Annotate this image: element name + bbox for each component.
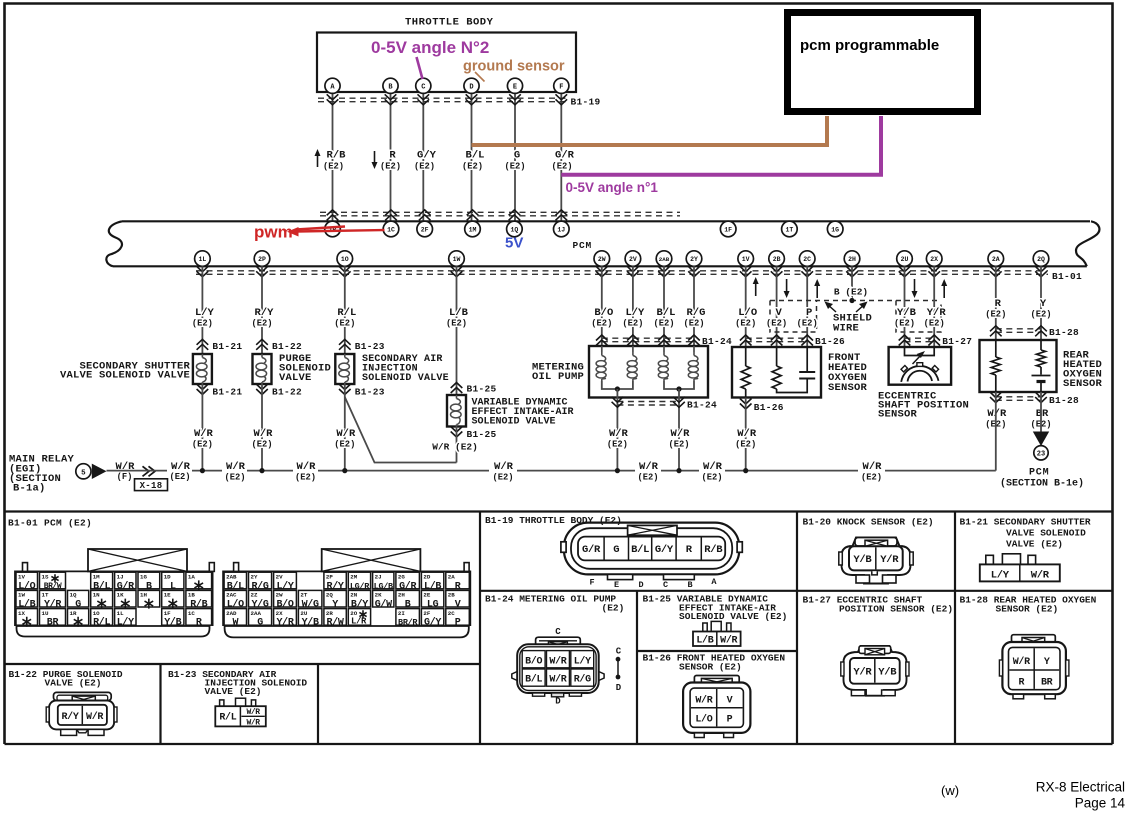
svg-text:P: P — [806, 307, 812, 319]
connector B1-22 top bar — [54, 692, 112, 700]
svg-text:Y/R: Y/R — [927, 307, 947, 319]
svg-text:1W: 1W — [453, 256, 461, 263]
connector B1-19 outer shell — [564, 523, 739, 575]
solenoid coil winding on wire 1O — [344, 354, 346, 358]
PCM pin 2A — [988, 251, 1004, 267]
svg-text:W/R: W/R — [254, 428, 274, 440]
terminal cell 2W = B/O — [274, 590, 297, 607]
svg-text:2U: 2U — [901, 256, 909, 263]
svg-text:1T: 1T — [42, 592, 49, 599]
svg-text:R/Y: R/Y — [255, 307, 275, 319]
svg-text:L/Y: L/Y — [117, 617, 134, 629]
solenoid valve coil box on wire 1L — [193, 354, 212, 384]
svg-text:2H: 2H — [848, 256, 856, 263]
svg-text:1L: 1L — [198, 256, 206, 263]
connector B1-22 ear right — [114, 707, 117, 722]
svg-text:W/R: W/R — [297, 461, 317, 473]
svg-text:2H: 2H — [398, 592, 405, 599]
svg-text:(E2): (E2) — [894, 319, 915, 329]
connector B1-24 dashed line above pump — [602, 337, 694, 339]
throttle body pin E — [507, 78, 522, 93]
up arrow on wire 2X — [943, 283, 945, 298]
table grid vertical x480 — [479, 512, 481, 745]
connector B1-22 crosshatch — [72, 696, 95, 703]
wire from pin 2C down to front heated oxygen sensor — [806, 266, 808, 347]
wire C from throttle pin C to PCM pin 2F — [422, 93, 424, 221]
table grid line between B1-25 and B1-26 — [637, 650, 797, 652]
connector B1-25 tab right — [727, 623, 731, 632]
svg-text:1J: 1J — [117, 573, 124, 580]
connector B1-25 chevron above valve — [451, 383, 463, 389]
table grid line below B1-19 row — [480, 590, 1113, 592]
eccentric sensor rotor tooth top — [917, 363, 923, 367]
red annotation arrowhead — [287, 227, 299, 237]
svg-text:B/O: B/O — [525, 655, 542, 667]
svg-text:(w): (w) — [941, 783, 959, 798]
svg-text:23: 23 — [1037, 451, 1045, 459]
svg-text:2U: 2U — [300, 610, 307, 617]
svg-text:R/G: R/G — [687, 307, 706, 319]
PCM pin 1Q — [507, 221, 523, 237]
svg-text:B1-19: B1-19 — [571, 97, 601, 108]
connector B1-26 bottom tab right — [724, 733, 734, 738]
terminal cell 1F = Y/B — [162, 609, 184, 626]
terminal cell 1U = BR — [40, 609, 66, 626]
svg-text:B (E2): B (E2) — [834, 287, 868, 298]
connector B1-01 left top tab right — [209, 563, 214, 572]
svg-text:2C: 2C — [803, 256, 811, 263]
connector B1-19 dashed line — [318, 97, 566, 99]
terminal cell pump B/L r2c1 — [522, 669, 545, 686]
shield dashed box around V and P wires — [770, 301, 817, 333]
svg-text:VALVE (E2): VALVE (E2) — [205, 686, 262, 697]
connector B1-26 bottom tab left — [694, 733, 704, 738]
wire F from throttle pin F to PCM pin 1J — [560, 93, 562, 221]
connector B1-21 tab right — [1028, 555, 1036, 564]
svg-text:B/L: B/L — [631, 544, 649, 556]
svg-text:(E2): (E2) — [607, 440, 628, 450]
svg-text:2X: 2X — [276, 610, 283, 617]
connector B1-01 chevron below pin 1O — [339, 266, 351, 272]
connector B1-28 ear right — [1066, 660, 1069, 676]
terminal cell 2I = BR/R — [396, 609, 420, 626]
throttle body pin B — [383, 78, 398, 93]
svg-text:B1-23: B1-23 — [355, 341, 385, 352]
svg-text:SOLENOID VALVE (E2): SOLENOID VALVE (E2) — [679, 611, 787, 622]
svg-text:B1-24: B1-24 — [687, 400, 717, 411]
connector B1-01 chevron below pin 2H — [846, 266, 858, 272]
svg-text:2T: 2T — [300, 592, 307, 599]
wire from pin 1L down to solenoid valve — [201, 266, 203, 354]
terminal cell 2A = R — [446, 572, 470, 589]
connector B1-27 outer housing — [844, 646, 907, 696]
wire from pin 1O down to solenoid valve — [344, 266, 346, 354]
svg-text:W/R (E2): W/R (E2) — [432, 442, 478, 453]
svg-text:W/R: W/R — [1013, 656, 1030, 668]
svg-text:R/L: R/L — [93, 617, 110, 629]
wire from pin 1W down to variable dynamic valve — [456, 266, 458, 395]
table grid line below B1-01 — [5, 663, 481, 665]
terminal cell 2V = L/Y — [274, 572, 297, 589]
wire from pin 2P down to solenoid valve — [261, 266, 263, 354]
terminal cell throttle R/B — [700, 538, 702, 560]
svg-text:0-5V angle n°1: 0-5V angle n°1 — [566, 180, 659, 195]
svg-text:B: B — [687, 580, 692, 590]
connector chevron above pin 2F — [419, 210, 431, 216]
svg-text:B1-21: B1-21 — [212, 341, 242, 352]
svg-text:2Y: 2Y — [690, 256, 698, 263]
connector B1-24 bottom tab right — [569, 693, 581, 696]
svg-text:2F: 2F — [423, 610, 430, 617]
variable dynamic valve coil winding — [456, 395, 458, 399]
svg-text:D: D — [555, 697, 561, 707]
connector B1-20 crosshatch — [865, 540, 888, 546]
connector B1-01 chevron below pin 2AB — [658, 266, 670, 272]
connector B1-01 right top tab right — [464, 563, 469, 572]
svg-text:R/L: R/L — [337, 307, 356, 319]
wire from pin 2V down to metering oil pump — [632, 266, 634, 346]
PCM bus top line — [122, 220, 1090, 222]
eccentric sensor rotor tooth left — [901, 366, 907, 372]
svg-text:C: C — [663, 580, 668, 590]
terminal cell 2K = G/W — [373, 590, 394, 607]
svg-text:POSITION SENSOR (E2): POSITION SENSOR (E2) — [839, 604, 953, 615]
connector chevron above pin 1C — [385, 210, 397, 216]
throttle body pin A — [325, 78, 340, 93]
ground wire from variable dynamic valve joining wire 1O — [345, 397, 457, 463]
terminal cell 1B = R/B — [186, 590, 212, 607]
shield wire dashed line — [770, 300, 941, 302]
connector B1-27 ear right — [906, 662, 909, 676]
terminal cell 1N = * — [91, 590, 113, 607]
solenoid coil winding on wire 1L — [201, 354, 203, 358]
connector B1-22 bottom tab right — [88, 729, 104, 735]
connector B1-23 terminal frame — [215, 706, 265, 726]
svg-text:RX-8 Electrical: RX-8 Electrical — [1036, 780, 1125, 795]
connector B1-27 chevron on wire 2X — [928, 335, 940, 341]
svg-text:(E2): (E2) — [295, 473, 316, 483]
svg-text:E: E — [513, 83, 517, 91]
svg-text:W/R: W/R — [549, 674, 566, 686]
PCM pin 1T — [782, 221, 798, 237]
connector B1-28 top tab — [1012, 635, 1056, 643]
wire from pin 2A to rear heated oxygen sensor — [995, 266, 997, 340]
connector B1-01 chevron below pin 2X — [928, 266, 940, 272]
svg-text:2AB: 2AB — [659, 256, 670, 263]
connector B1-21 terminal frame — [980, 564, 1060, 581]
terminal cell 1H = * — [138, 590, 160, 607]
svg-text:R/W: R/W — [327, 617, 344, 629]
wire between C and D points — [617, 659, 619, 677]
metering oil pump coil on wire 2V — [632, 346, 634, 352]
connector B1-01 left crosshatch — [88, 549, 187, 571]
svg-text:(E2): (E2) — [192, 319, 213, 329]
svg-text:G: G — [514, 150, 520, 162]
wire from pin 2Q to rear heated oxygen sensor — [1040, 266, 1042, 340]
svg-text:(E2): (E2) — [766, 319, 787, 329]
pump coil pair join wire right — [664, 381, 694, 389]
throttle body pin C — [416, 78, 431, 93]
connector B1-27 ear left — [841, 662, 844, 676]
connector B1-21 chevron above valve — [197, 339, 209, 345]
wire from pin 2AB down to metering oil pump — [663, 266, 665, 346]
ground wire from left pump pair to bus — [616, 389, 618, 471]
svg-text:C: C — [616, 647, 622, 657]
eccentric sensor arrow — [913, 355, 922, 365]
svg-text:P: P — [727, 715, 733, 726]
svg-text:V: V — [775, 307, 782, 319]
svg-text:W/R: W/R — [863, 461, 883, 473]
PCM pin 1M — [465, 221, 481, 237]
connector B1-23 tab right — [251, 700, 255, 706]
eccentric sensor toothed rotor outer arc — [901, 366, 938, 382]
svg-text:W/R: W/R — [336, 428, 356, 440]
svg-text:Y: Y — [1040, 298, 1047, 310]
connector B1-24 ear right — [599, 672, 604, 681]
svg-text:VALVE SOLENOID: VALVE SOLENOID — [1006, 528, 1086, 539]
svg-text:pcm programmable: pcm programmable — [800, 37, 939, 54]
svg-text:G/W: G/W — [375, 599, 392, 611]
terminal cell 2O = #L/R — [348, 609, 370, 626]
terminal cell throttle R — [675, 538, 677, 560]
connector chevron above pin 1J — [556, 210, 568, 216]
svg-text:0-5V angle N°2: 0-5V angle N°2 — [371, 38, 489, 57]
terminal cell pump B/O r1c1 — [522, 651, 545, 668]
svg-text:(E2): (E2) — [701, 473, 722, 483]
svg-text:2AB: 2AB — [226, 573, 237, 580]
ground bus junction dot at pump right — [676, 468, 681, 473]
svg-text:W/R: W/R — [639, 461, 659, 473]
svg-text:1D: 1D — [164, 573, 171, 580]
svg-text:R/G: R/G — [574, 674, 591, 686]
connector B1-24 bottom tab left — [533, 693, 545, 696]
svg-text:2AD: 2AD — [226, 610, 237, 617]
svg-text:W/R: W/R — [1031, 570, 1050, 582]
connector B1-01 chevron below pin 2C — [801, 266, 813, 272]
connector B1-01 chevron below pin 2Q — [1035, 266, 1047, 272]
svg-text:VALVE (E2): VALVE (E2) — [1006, 539, 1063, 550]
svg-text:1H: 1H — [140, 592, 147, 599]
svg-text:B/L: B/L — [657, 307, 676, 319]
connector B1-27 chevron on wire 2U — [899, 335, 911, 341]
svg-text:PCM: PCM — [1029, 468, 1049, 479]
svg-text:C: C — [555, 627, 561, 637]
connector chevron above pin 1M — [467, 210, 479, 216]
connector B1-28 ear left — [999, 660, 1002, 676]
svg-text:G/R: G/R — [582, 544, 601, 556]
svg-text:(E2): (E2) — [334, 319, 355, 329]
connector B1-26 chevron on wire 1V — [740, 335, 752, 341]
PCM pin 2H — [844, 251, 860, 267]
PCM pin 2C — [799, 251, 815, 267]
red annotation line to pin 1B — [296, 227, 345, 230]
svg-text:1V: 1V — [18, 573, 25, 580]
connector B1-28 outer housing — [1002, 642, 1066, 694]
svg-text:B/O: B/O — [594, 307, 613, 319]
svg-text:2V: 2V — [276, 573, 283, 580]
svg-text:W/R: W/R — [737, 428, 757, 440]
svg-text:(E2): (E2) — [446, 319, 467, 329]
svg-text:B1-22: B1-22 — [272, 387, 302, 398]
table grid vertical x637 — [636, 591, 638, 744]
svg-text:W/R: W/R — [86, 711, 103, 723]
connector B1-24 chevron on wire 2V — [627, 335, 639, 341]
svg-text:(E2): (E2) — [622, 319, 643, 329]
svg-text:2W: 2W — [598, 256, 606, 263]
terminal cell 1K = * — [115, 590, 136, 607]
connector B1-01 right top tab left — [234, 563, 239, 572]
ground bus W/R wire segments — [107, 470, 168, 472]
svg-text:BR: BR — [47, 618, 59, 629]
connector B1-27 top bar — [859, 646, 891, 654]
connector B1-01 right boot — [225, 626, 469, 637]
terminal cell 2AB = B/L — [224, 572, 246, 589]
svg-text:1J: 1J — [557, 227, 565, 234]
solenoid coil winding on wire 2P — [261, 354, 263, 358]
PCM pin 2P — [254, 251, 270, 267]
svg-text:1F: 1F — [724, 227, 732, 234]
svg-text:2AA: 2AA — [251, 610, 262, 617]
svg-text:D: D — [616, 683, 622, 693]
terminal cell eccentric Y/R — [874, 659, 876, 683]
terminal cell pump R/G r2c3 — [571, 669, 594, 686]
svg-text:1R: 1R — [70, 610, 77, 617]
svg-text:W/R: W/R — [671, 428, 691, 440]
terminal cell 1O = R/L — [91, 609, 113, 626]
svg-text:R: R — [995, 298, 1002, 310]
PCM bus bottom line — [113, 265, 1087, 267]
terminal cell 2J = LG/B — [373, 572, 394, 589]
connector B1-28 dashed line — [996, 328, 1041, 330]
svg-text:B1-01 PCM (E2): B1-01 PCM (E2) — [8, 518, 92, 529]
connector B1-24 top tab — [536, 637, 581, 645]
svg-text:BR: BR — [1041, 678, 1053, 689]
connector B1-19 bottom tab left — [608, 574, 633, 579]
svg-text:BR/R: BR/R — [398, 618, 418, 628]
svg-text:SENSOR (E2): SENSOR (E2) — [679, 662, 742, 673]
metering oil pump coil on wire 2AB — [663, 346, 665, 352]
svg-text:2B: 2B — [773, 256, 781, 263]
svg-text:2R: 2R — [326, 610, 333, 617]
connector B1-19 bottom tab right — [664, 574, 695, 579]
terminal cell 2Q = Y — [324, 590, 346, 607]
PCM pin 2X — [926, 251, 942, 267]
svg-text:L/Y: L/Y — [991, 570, 1010, 582]
svg-text:(E2): (E2) — [492, 473, 513, 483]
connector B1-24 chevron on wire 2Y — [688, 335, 700, 341]
PCM pin 1C — [383, 221, 399, 237]
svg-text:B1-25: B1-25 — [467, 429, 497, 440]
svg-text:5V: 5V — [505, 235, 523, 252]
svg-text:A: A — [711, 577, 717, 587]
svg-text:B1-27: B1-27 — [942, 336, 972, 347]
svg-text:W/R: W/R — [246, 718, 260, 727]
svg-text:(E2): (E2) — [735, 319, 756, 329]
terminal cell 2P = R/Y — [324, 572, 346, 589]
svg-text:R: R — [686, 544, 693, 556]
connector B1-28 dashed line below sensor — [996, 396, 1041, 398]
connector B1-20 top bar — [855, 538, 897, 547]
annotation pointer line to pin D — [475, 72, 485, 82]
shield pointer arrow left — [827, 304, 836, 312]
svg-text:1G: 1G — [140, 573, 147, 580]
rear O2 sensor element resistor on wire 2Q — [1040, 340, 1042, 350]
connector B1-24 outer housing — [517, 644, 599, 693]
connector B1-26 inner frame — [690, 688, 743, 727]
terminal cell L/Y — [1019, 564, 1021, 581]
connector B1-19 right notch — [737, 542, 742, 553]
connector B1-24 chevron below pump right — [673, 397, 685, 403]
connector B1-22 chevron above valve — [256, 339, 268, 345]
throttle body box — [317, 33, 576, 93]
terminal cell 1C = R — [186, 609, 212, 626]
svg-text:Y/B: Y/B — [853, 554, 872, 566]
connector B1-26 top tab — [694, 676, 739, 684]
svg-text:2A: 2A — [992, 256, 1000, 263]
svg-text:(E2): (E2) — [414, 162, 435, 172]
svg-text:SENSOR: SENSOR — [828, 382, 868, 394]
connector B1-25 tab middle — [711, 621, 721, 631]
svg-text:G: G — [613, 544, 619, 556]
connector B1-28 chevron below sensor left — [990, 392, 1002, 398]
metering oil pump coil on wire 2W — [601, 346, 603, 352]
svg-text:F: F — [559, 83, 563, 91]
svg-text:B1-28: B1-28 — [1049, 327, 1079, 338]
connector B1-01 chevron below pin 2A — [990, 266, 1002, 272]
junction dot left pump pair — [615, 386, 620, 391]
connector B1-19 middle shell — [571, 528, 732, 569]
terminal cell throttle B/L — [628, 538, 630, 560]
connector B1-23 chevron below valve — [339, 384, 351, 390]
connector B1-25 chevron below valve — [451, 427, 463, 433]
svg-text:W/R: W/R — [246, 708, 260, 717]
svg-text:G: G — [257, 618, 263, 629]
svg-text:(E2): (E2) — [591, 319, 612, 329]
svg-text:B1-20 KNOCK SENSOR (E2): B1-20 KNOCK SENSOR (E2) — [803, 517, 934, 528]
purple annotation wire from throttle F wire to pcm programmable box — [561, 116, 881, 175]
connector B1-23 tab middle — [236, 698, 246, 706]
svg-text:F: F — [589, 578, 594, 588]
table grid horizontal line bottom frame — [5, 743, 1113, 745]
connector B1-22 top bar inner — [57, 695, 108, 700]
svg-text:1Q: 1Q — [510, 227, 518, 234]
wire from rear O2 sensor to PCM arrow — [1040, 392, 1042, 432]
svg-text:2Q: 2Q — [326, 592, 333, 599]
terminal cell 1G = B — [138, 572, 160, 589]
svg-text:(E2): (E2) — [251, 440, 272, 450]
svg-text:1X: 1X — [18, 610, 25, 617]
svg-text:W/R: W/R — [720, 635, 737, 647]
svg-text:(E2): (E2) — [602, 603, 625, 614]
svg-text:(E2): (E2) — [668, 440, 689, 450]
terminal cell throttle G/Y — [651, 538, 653, 560]
terminal cell 2H = B — [396, 590, 420, 607]
metering oil pump coil on wire 2Y — [693, 346, 695, 352]
connector B1-28 bottom tab left — [1013, 694, 1024, 699]
connector B1-19 chevron at pin A — [327, 94, 339, 100]
svg-text:(E2): (E2) — [797, 319, 818, 329]
connector B1-01 chevron below pin 1L — [197, 266, 209, 272]
ground bus junction dot at wire 1L — [200, 468, 205, 473]
svg-text:2C: 2C — [448, 610, 455, 617]
terminal cell 2Z = Y/G — [249, 590, 272, 607]
svg-text:(E2): (E2) — [683, 319, 704, 329]
svg-text:2Q: 2Q — [1037, 256, 1045, 263]
connector B1-22 outer housing — [49, 701, 114, 730]
svg-text:SOLENOID VALVE: SOLENOID VALVE — [362, 373, 449, 384]
svg-text:R: R — [196, 618, 202, 629]
front O2 sensor internal join wire — [777, 379, 808, 393]
